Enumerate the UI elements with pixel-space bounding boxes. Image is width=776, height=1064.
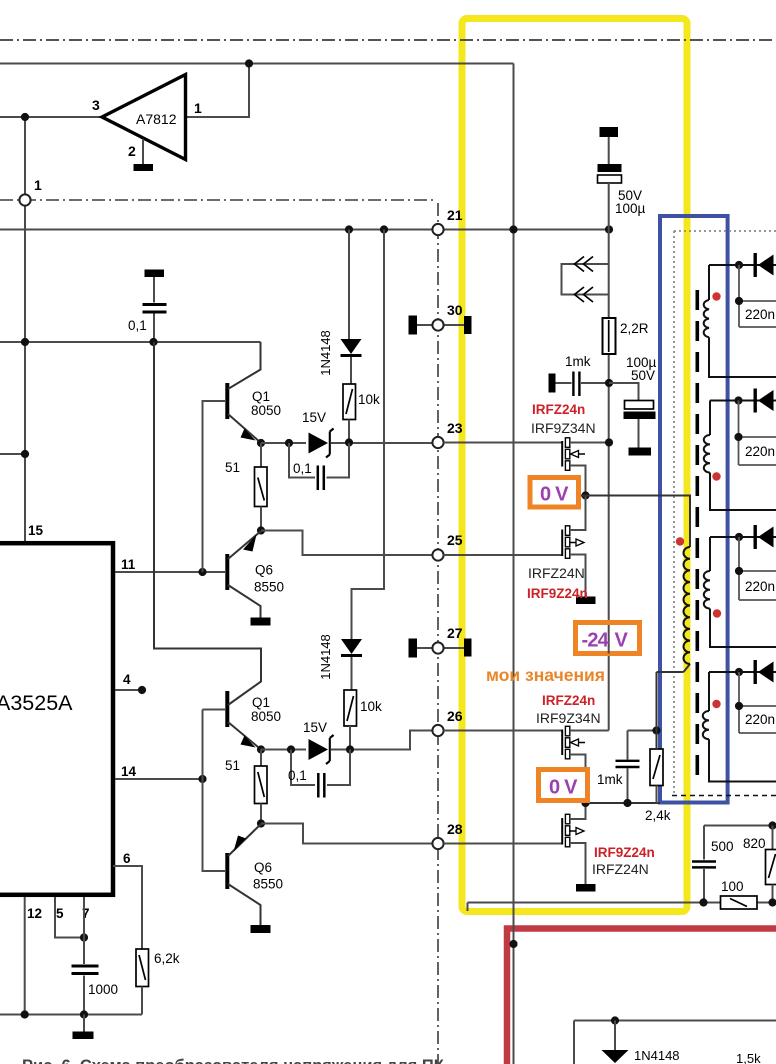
wire Q6b junction to pin28 — [261, 824, 433, 844]
svg-text:мои значения: мои значения — [486, 665, 605, 685]
wire pin6 to 6,2k — [113, 866, 142, 949]
svg-text:IRFZ24n: IRFZ24n — [542, 693, 595, 708]
svg-text:2: 2 — [128, 143, 136, 159]
wire gray bus y902 — [468, 903, 776, 912]
node dot pin5-pin7 — [80, 933, 88, 941]
node dot D2 junction — [734, 396, 742, 404]
capacitor 0,1 driver supply — [128, 305, 167, 343]
capacitor 500 — [692, 826, 734, 903]
ground bar Q6b collector — [251, 925, 271, 933]
connector circle pin 27 — [432, 642, 443, 653]
red highlight box — [507, 929, 776, 1064]
snubber 220n W2 — [739, 401, 776, 466]
node 1 boundary circle — [19, 194, 30, 205]
wire collector supply line y342 — [0, 341, 261, 343]
red dot W4 — [712, 700, 720, 708]
svg-text:8550: 8550 — [253, 877, 283, 892]
svg-text:30: 30 — [447, 302, 463, 318]
node dot 0,1b left — [287, 745, 295, 753]
capacitor 0,1 bypass stage1 — [289, 443, 349, 490]
dash-dot connector boundary vertical — [437, 203, 439, 1064]
svg-text:-24: -24 — [582, 630, 610, 652]
capacitor 1mk lower — [597, 731, 640, 804]
svg-text:4: 4 — [123, 672, 131, 687]
diode rectifier D1 line — [709, 264, 776, 266]
svg-text:21: 21 — [447, 207, 463, 223]
terminal bar M4 source — [576, 884, 596, 892]
svg-text:IRF9Z34N: IRF9Z34N — [536, 710, 601, 726]
red dot W1 — [712, 292, 720, 300]
wire -24V rail x609 — [608, 230, 610, 731]
node dot x153 y342 — [149, 338, 157, 346]
svg-text:1,5k: 1,5k — [736, 1051, 761, 1064]
svg-text:1000: 1000 — [88, 982, 118, 997]
dotted boundary horizontal — [674, 230, 776, 232]
wire supply cap 0,1 branch — [145, 270, 165, 303]
wire stub y454 — [0, 453, 25, 455]
node dot 0,1a left — [285, 439, 293, 447]
wire 1mk to 2,4k top — [628, 730, 657, 732]
mosfet M3 pin26 upper — [562, 726, 609, 803]
diode D2 — [754, 389, 774, 413]
node dot Q6a emitter junction — [257, 526, 265, 534]
node dot cap1000 gnd — [80, 1010, 88, 1018]
svg-text:15V: 15V — [303, 720, 327, 735]
node dot 820 top — [768, 821, 776, 829]
svg-text:A7812: A7812 — [136, 111, 177, 127]
svg-text:220n: 220n — [745, 712, 775, 727]
IC A3525A box — [0, 543, 113, 895]
node dot 1mk bottom — [623, 799, 631, 807]
orange annotation box 0V lower — [539, 770, 588, 801]
wire output bus y825 — [704, 825, 776, 827]
svg-text:8550: 8550 — [254, 580, 284, 595]
svg-text:25: 25 — [447, 532, 463, 548]
svg-text:1N4148: 1N4148 — [634, 1048, 680, 1063]
wire vertical pin15 feed x24 — [24, 117, 26, 541]
terminal bar M2 source — [576, 597, 596, 605]
node dot half-bridge1 mid — [581, 491, 589, 499]
svg-text:8050: 8050 — [251, 709, 281, 724]
resistor 820 — [743, 826, 776, 903]
dashed boundary bottom — [672, 795, 776, 797]
node dot D1 junction — [735, 261, 743, 269]
wire pin14 up to Q1b base and down to Q6b base — [203, 710, 226, 872]
svg-text:15V: 15V — [302, 410, 326, 425]
svg-text:0,1: 0,1 — [288, 768, 307, 783]
node dot 220n W4 — [735, 702, 743, 710]
wire zener2 to pin26 — [331, 731, 433, 750]
svg-text:0 V: 0 V — [540, 484, 569, 506]
snubber 220n W3 — [739, 537, 776, 600]
node dot Q1b emitter — [257, 745, 265, 753]
transformer primary winding — [683, 547, 690, 664]
wire pin12 — [24, 897, 26, 1015]
secondary winding W1 — [704, 265, 776, 377]
node dot 220n W1 — [735, 297, 743, 305]
svg-text:51: 51 — [225, 460, 240, 475]
wire chain2 routing from supply — [352, 230, 385, 634]
svg-text:0,1: 0,1 — [293, 461, 312, 476]
node dot x24 y342 — [21, 338, 29, 346]
svg-text:100µ: 100µ — [615, 201, 646, 216]
svg-text:1mk: 1mk — [597, 772, 623, 787]
fuse 2,2R — [603, 318, 649, 354]
diode D4 — [754, 660, 774, 684]
secondary winding W4 — [703, 672, 776, 782]
connector circle pin 30 — [432, 319, 443, 330]
svg-text:IRF9Z24n: IRF9Z24n — [527, 586, 588, 601]
capacitor 50V 100u top — [598, 127, 646, 230]
svg-text:1N4148: 1N4148 — [318, 330, 333, 376]
resistor 6,2k — [136, 949, 180, 1015]
connector circle pin 23 — [432, 437, 443, 448]
svg-text:26: 26 — [447, 708, 463, 724]
yellow highlight box — [462, 19, 687, 912]
secondary winding W3 — [704, 537, 776, 647]
connector circle pin 25 — [432, 549, 443, 560]
resistor 51 stage2 — [225, 750, 267, 824]
capacitor 1000 — [72, 897, 119, 1015]
node dot rail x609 on supply — [605, 225, 613, 233]
svg-text:5: 5 — [56, 906, 64, 921]
resistor 10k chain2 — [344, 690, 382, 750]
diode 1N4148 chain2 — [341, 633, 362, 690]
zener diode 15V stage1 — [302, 410, 334, 458]
svg-text:V: V — [615, 630, 629, 652]
connector circle pin 28 — [432, 838, 443, 849]
orange annotation box 0V upper — [530, 478, 579, 508]
svg-text:Q6: Q6 — [254, 860, 272, 875]
snubber 220n W1 — [739, 265, 776, 327]
svg-text:220n: 220n — [745, 444, 775, 459]
svg-text:100: 100 — [721, 879, 744, 894]
node dot pin11 branch — [198, 568, 206, 576]
node dot 1mk rail — [605, 379, 613, 387]
node dot pin14 branch — [198, 775, 206, 783]
capacitor 1mk upper with terminal bar — [549, 354, 610, 396]
connector pin 30 with bars — [409, 316, 472, 335]
node dot 820 bottom — [768, 898, 776, 906]
svg-text:Рис. 6. Схема преобразователя: Рис. 6. Схема преобразователя напряжения… — [22, 1057, 445, 1064]
wire pin11 up to Q1a base — [203, 401, 226, 572]
node dot output junction — [245, 59, 253, 67]
transistor Q6 stage2 — [225, 824, 283, 925]
svg-text:2,2R: 2,2R — [620, 321, 649, 336]
node dot 2,4k top — [652, 726, 660, 734]
wire pin23 to M1 gate — [444, 442, 563, 444]
svg-text:23: 23 — [447, 420, 463, 436]
svg-text:10k: 10k — [360, 699, 382, 714]
node dot 500 bottom — [699, 898, 707, 906]
svg-text:8050: 8050 — [251, 403, 281, 418]
wire +supply line y229 — [0, 229, 433, 231]
snubber 220n W4 — [739, 672, 776, 733]
wire half-bridge2 output line y803 — [586, 802, 661, 804]
connector pin 27 with bars — [409, 639, 472, 658]
wire pin 14 — [115, 778, 203, 780]
node dot M3 source on 0V line — [581, 799, 589, 807]
mosfet M1 pin23 upper — [562, 438, 609, 496]
red dot primary — [676, 537, 684, 545]
wire zener1 to pin23 — [331, 442, 433, 444]
wire bottom net y1020 — [574, 1021, 776, 1064]
ground bar Q6a collector — [251, 618, 271, 626]
svg-text:1N4148: 1N4148 — [318, 634, 333, 680]
svg-text:6: 6 — [123, 851, 131, 866]
wire pin26 to M3 gate — [444, 730, 563, 732]
capacitor 100u 50V electrolytic — [609, 355, 657, 456]
svg-text:Q1: Q1 — [252, 389, 270, 404]
node dot D4 junction — [735, 668, 743, 676]
svg-text:IRF9Z24n: IRF9Z24n — [594, 845, 655, 860]
resistor 10k chain1 — [343, 384, 380, 443]
red dot W3 — [713, 609, 721, 617]
svg-text:15: 15 — [28, 523, 44, 538]
node dot chain 2 top — [380, 225, 388, 233]
svg-text:Q1: Q1 — [252, 695, 270, 710]
wire main vertical rail x514 — [513, 64, 515, 1064]
diode 1N4148 chain1 — [341, 230, 362, 385]
wire supply line right of pin21 — [444, 229, 610, 231]
svg-text:10k: 10k — [358, 392, 380, 407]
connector circle pin 21 — [432, 224, 443, 235]
svg-text:IRFZ24N: IRFZ24N — [592, 861, 649, 877]
wire top rail horizontal — [0, 63, 514, 65]
mosfet M2 pin25 lower — [562, 496, 585, 597]
transistor Q6 stage1 — [225, 531, 284, 618]
node dot Q1a emitter — [257, 439, 265, 447]
wire stage1 emitter line to zener — [261, 442, 306, 444]
diode rectifier D2 line — [710, 400, 776, 402]
svg-text:220n: 220n — [745, 579, 775, 594]
svg-text:11: 11 — [121, 557, 136, 572]
transistor Q1 stage1 — [225, 342, 281, 443]
node dot 10k1 bottom — [345, 438, 353, 446]
svg-text:27: 27 — [447, 625, 463, 641]
wire ground bus y1014 — [0, 1014, 142, 1016]
node dot M1 drain rail — [605, 438, 613, 446]
wire Q6a junction to pin25 — [261, 531, 433, 556]
wire primary bottom to 2,4k node — [657, 664, 691, 749]
dash-dot border top — [0, 39, 776, 41]
svg-text:220n: 220n — [745, 307, 775, 322]
node dot at y117 — [21, 113, 29, 121]
coupled inductor hook with chevrons — [562, 257, 609, 303]
op-amp style regulator A7812 — [102, 75, 186, 160]
transformer core dashed — [695, 290, 699, 784]
node dot 220n W2 — [734, 433, 742, 441]
ground symbol bottom-left — [73, 1015, 94, 1040]
svg-text:12: 12 — [27, 906, 42, 921]
resistor 100 — [721, 879, 758, 909]
svg-text:50V: 50V — [631, 368, 655, 383]
node dot pin4 — [138, 686, 146, 694]
dotted boundary vertical — [673, 231, 675, 795]
svg-text:IRF9Z34N: IRF9Z34N — [531, 420, 596, 436]
svg-text:6,2k: 6,2k — [154, 951, 180, 966]
wire A7812 output to top rail — [185, 64, 249, 118]
diode rectifier D3 line — [710, 536, 776, 538]
svg-text:28: 28 — [447, 821, 463, 837]
dash-dot border mid-left — [0, 199, 436, 201]
wire A7812 input — [0, 116, 102, 118]
svg-text:0,1: 0,1 — [128, 318, 147, 333]
zener diode 15V stage2 — [303, 720, 334, 764]
orange annotation box -24V — [576, 623, 640, 654]
svg-text:14: 14 — [121, 764, 137, 779]
node dot 10k2 bottom — [346, 745, 354, 753]
mosfet M4 pin28 lower — [562, 803, 585, 884]
ground bar A7812 — [134, 164, 154, 171]
node dot rail x514 on supply — [509, 225, 517, 233]
svg-text:51: 51 — [225, 758, 240, 773]
svg-text:820: 820 — [743, 836, 766, 851]
red dot W2 — [712, 472, 720, 480]
wire pin 11 — [115, 571, 225, 573]
secondary winding W2 — [704, 401, 776, 511]
svg-text:IRFZ24N: IRFZ24N — [528, 565, 585, 581]
node dot x24 y454 — [21, 450, 29, 458]
svg-text:IRFZ24n: IRFZ24n — [532, 402, 585, 417]
wire A7812 pin2 — [142, 139, 144, 164]
wire pin25 to M2 gate — [444, 554, 563, 556]
wire pin 4 stub — [115, 689, 142, 691]
wire half-bridge1 output to primary top — [581, 496, 690, 548]
resistor 51 stage1 — [225, 443, 267, 531]
node dot 220n W3 — [735, 567, 743, 575]
node dot D3 junction — [735, 533, 743, 541]
wire pin5 — [55, 897, 84, 938]
transistor Q1 stage2 — [154, 342, 281, 750]
wire pin28 to M4 gate — [444, 843, 563, 845]
diode D1 — [754, 253, 774, 277]
node dot pin12 gnd — [21, 1010, 29, 1018]
resistor 2,4k — [645, 749, 671, 823]
svg-text:0 V: 0 V — [549, 777, 578, 799]
diode D3 — [754, 525, 774, 549]
connector circle pin 26 — [432, 725, 443, 736]
svg-text:2,4k: 2,4k — [645, 808, 671, 823]
svg-text:A3525A: A3525A — [0, 691, 73, 715]
svg-text:1mk: 1mk — [565, 354, 591, 369]
node dot Q6b emitter junction — [257, 819, 265, 827]
svg-text:500: 500 — [711, 839, 734, 854]
svg-text:3: 3 — [92, 97, 100, 113]
node dot diode 1N4148 bottom — [611, 1016, 619, 1024]
node dot diode chain 1 top — [345, 225, 353, 233]
capacitor 0,1 bypass stage2 — [288, 750, 350, 798]
blue transformer box — [660, 216, 728, 803]
node dot rail in red box — [509, 940, 517, 948]
diode 1N4148 bottom — [602, 1021, 629, 1064]
wire stage2 emitter line — [261, 749, 306, 751]
svg-text:1: 1 — [34, 177, 42, 193]
svg-text:1: 1 — [194, 100, 202, 116]
svg-text:Q6: Q6 — [255, 563, 273, 578]
diode rectifier D4 line — [709, 671, 776, 673]
